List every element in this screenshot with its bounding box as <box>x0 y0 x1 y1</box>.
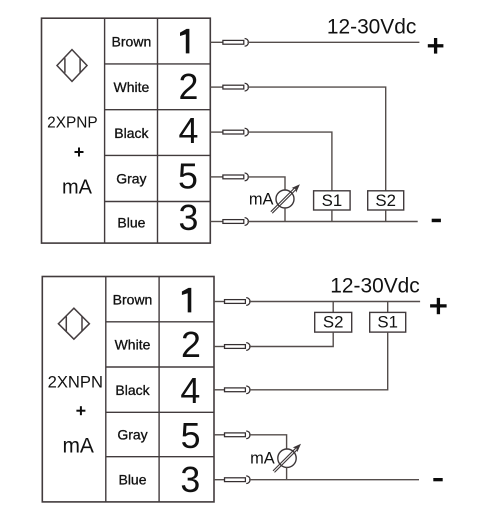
svg-text:mA: mA <box>249 190 274 208</box>
terminal block U2 column dividers <box>106 277 159 502</box>
wire white pin2 stub <box>210 86 223 88</box>
terminal block U1 outer box <box>42 18 211 243</box>
wire meter to - rail (bottom) <box>286 467 288 479</box>
svg-text:mA: mA <box>62 177 93 199</box>
connector white pin2 <box>223 83 249 91</box>
svg-text:White: White <box>115 337 151 353</box>
svg-text:4: 4 <box>180 371 200 411</box>
switch S1 (bottom) <box>370 312 406 332</box>
- terminal (bottom) <box>433 478 442 481</box>
ammeter M2 arrowhead <box>293 444 301 452</box>
pin 1 (bottom) <box>182 288 191 313</box>
wire meter to - rail (top) <box>284 208 286 222</box>
switch S2 (top) <box>368 191 404 210</box>
svg-text:3: 3 <box>180 460 200 500</box>
wire gray pin5 to meter (bottom) <box>249 435 287 449</box>
svg-text:2: 2 <box>181 325 201 365</box>
svg-text:Black: Black <box>115 382 150 398</box>
switch S1 (top) <box>314 191 351 210</box>
svg-text:2: 2 <box>178 67 198 107</box>
wire gray pin5 stub (bottom) <box>214 434 225 436</box>
wire black pin4 to S1 (bottom) <box>249 332 388 390</box>
connector gray pin5 (bottom) <box>225 431 251 439</box>
ammeter M1 arrowhead <box>292 184 300 192</box>
wire gray pin5 to meter <box>247 177 285 190</box>
wire black pin4 stub (bottom) <box>214 389 225 391</box>
- terminal (top) <box>432 219 441 223</box>
svg-text:4: 4 <box>178 111 198 151</box>
wire + rail to S1 (bottom) <box>387 302 389 313</box>
wire blue pin3 stub <box>210 221 223 223</box>
svg-text:Black: Black <box>114 125 149 141</box>
label + (left column) <box>75 148 84 157</box>
svg-text:Brown: Brown <box>112 34 152 50</box>
svg-text:3: 3 <box>179 198 199 238</box>
ammeter M2 (bottom) <box>273 448 297 472</box>
wire brown pin1 to + rail (bottom) <box>249 301 420 303</box>
terminal block U2 outer box <box>42 277 214 502</box>
connector black pin4 <box>223 128 249 136</box>
wire S2 to - rail <box>385 210 387 222</box>
terminal block U1 column dividers <box>105 18 158 243</box>
svg-text:mA: mA <box>250 449 275 467</box>
terminal block U1 row dividers <box>105 64 211 202</box>
switch S2 (bottom) <box>315 312 352 332</box>
connector gray pin5 <box>223 173 249 181</box>
wire gray pin5 stub <box>210 176 223 178</box>
connector brown pin1 (bottom) <box>225 298 251 306</box>
svg-text:12-30Vdc: 12-30Vdc <box>327 15 416 38</box>
svg-text:5: 5 <box>178 156 198 196</box>
svg-text:S2: S2 <box>323 313 344 332</box>
connector blue pin3 (bottom) <box>225 476 251 484</box>
svg-text:2XNPN: 2XNPN <box>48 372 103 391</box>
wire + rail to S2 (bottom) <box>332 302 334 313</box>
wire blue pin3 to - rail (bottom) <box>249 479 419 481</box>
wire brown pin1 stub (bottom) <box>214 301 225 303</box>
wire white pin2 to S2 (bottom) <box>249 332 333 346</box>
ammeter M1 (top) <box>271 188 296 213</box>
svg-text:S1: S1 <box>377 313 398 332</box>
svg-text:Gray: Gray <box>117 427 147 443</box>
connector brown pin1 <box>223 38 249 46</box>
connector white pin2 (bottom) <box>225 343 251 351</box>
label + (left column, bottom) <box>76 406 85 415</box>
wire white pin2 stub (bottom) <box>214 346 225 348</box>
svg-text:S2: S2 <box>375 191 396 210</box>
svg-text:12-30Vdc: 12-30Vdc <box>330 275 419 298</box>
svg-text:Gray: Gray <box>116 171 146 187</box>
sensor symbol (diamond) top <box>57 50 87 82</box>
sensor symbol (diamond) bottom <box>58 308 89 339</box>
wire brown pin1 stub <box>210 41 223 43</box>
+ terminal (bottom) <box>430 298 447 314</box>
wire blue pin3 stub (bottom) <box>214 479 225 481</box>
svg-text:Blue: Blue <box>118 472 146 488</box>
svg-text:Brown: Brown <box>113 291 153 307</box>
wire black pin4 stub <box>210 131 223 133</box>
svg-text:5: 5 <box>181 416 201 456</box>
svg-text:White: White <box>114 79 150 95</box>
svg-text:mA: mA <box>62 434 94 457</box>
svg-text:S1: S1 <box>322 191 343 210</box>
wire brown pin1 to + rail <box>247 41 419 43</box>
svg-text:Blue: Blue <box>117 215 145 231</box>
wire black pin4 to S1 <box>247 132 332 191</box>
connector black pin4 (bottom) <box>225 386 251 394</box>
svg-text:2XPNP: 2XPNP <box>47 115 97 132</box>
pin 1 <box>180 29 189 54</box>
terminal block U2 row dividers <box>106 322 214 457</box>
connector blue pin3 <box>223 218 249 226</box>
wire white pin2 to S2 <box>247 87 385 191</box>
wire S1 to - rail <box>331 210 333 222</box>
+ terminal (top) <box>428 38 444 54</box>
wire blue pin3 to - rail <box>247 221 417 223</box>
